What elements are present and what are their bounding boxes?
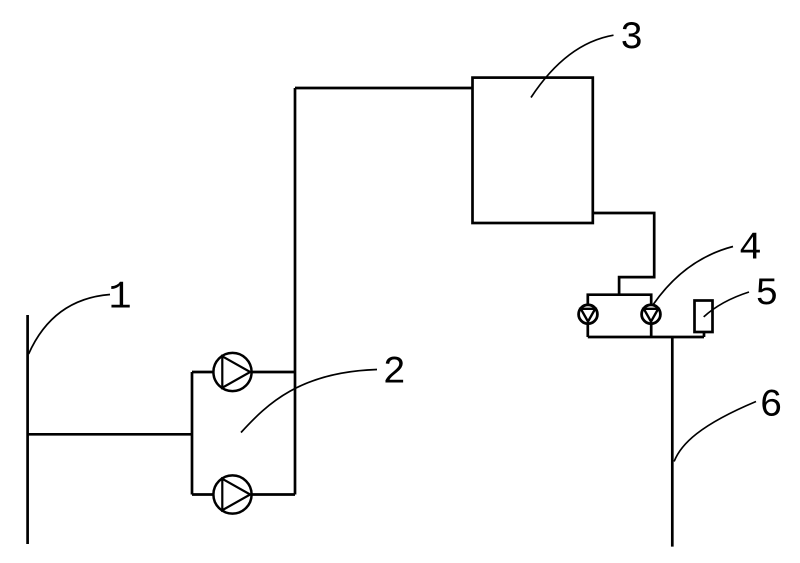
svg-text:1: 1 bbox=[108, 276, 131, 320]
svg-text:2: 2 bbox=[383, 351, 406, 395]
svg-text:3: 3 bbox=[620, 16, 643, 60]
svg-text:5: 5 bbox=[755, 272, 778, 316]
svg-text:4: 4 bbox=[739, 226, 762, 270]
svg-text:6: 6 bbox=[759, 384, 782, 428]
